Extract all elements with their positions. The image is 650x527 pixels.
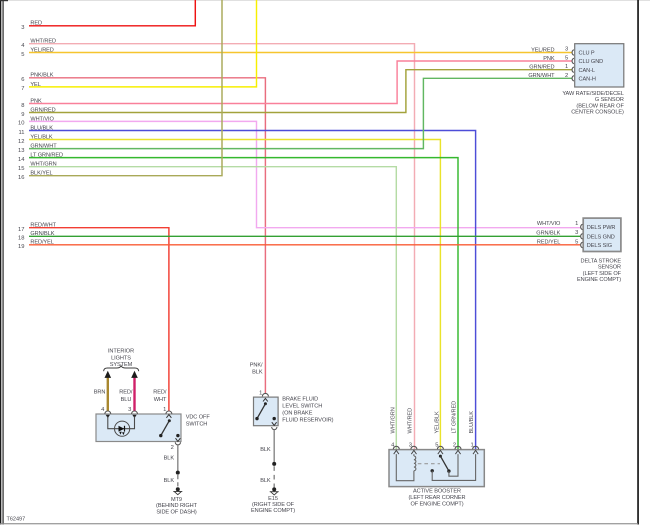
svg-text:15: 15 — [18, 166, 24, 172]
svg-text:WHT/GRN: WHT/GRN — [391, 407, 397, 433]
svg-text:2: 2 — [453, 443, 456, 449]
svg-text:RED/YEL: RED/YEL — [537, 239, 560, 245]
svg-text:2: 2 — [171, 445, 174, 451]
wire 17 RED/WHT — [18, 223, 169, 412]
svg-text:CENTER CONSOLE): CENTER CONSOLE) — [571, 110, 624, 116]
K1 coil L1 (between pins 4 and 3) — [396, 454, 416, 481]
ground MT9 — [156, 487, 198, 515]
U1 pin 1 (CAN-L) — [529, 64, 574, 72]
svg-text:YEL: YEL — [30, 82, 40, 88]
K1 mechanical link (dashed) — [418, 463, 440, 465]
svg-text:YAW RATE/SIDE/DECEL: YAW RATE/SIDE/DECEL — [562, 91, 623, 97]
svg-text:6: 6 — [21, 77, 24, 83]
svg-text:INTERIOR: INTERIOR — [108, 348, 134, 354]
wire 4 WHT/RED — [21, 39, 414, 450]
ground E15 — [251, 487, 295, 514]
svg-text:19: 19 — [18, 244, 24, 250]
wire RED/BLU (to interior lights) — [119, 371, 138, 412]
wire 18 GRN/BLK — [18, 231, 580, 241]
U2 pin 1 (DELS PWR) — [537, 221, 583, 230]
svg-text:WHT: WHT — [154, 397, 167, 403]
svg-text:LT GRN/RED: LT GRN/RED — [452, 401, 458, 434]
relay K1 ACTIVE BOOSTER — [389, 450, 484, 508]
svg-text:1: 1 — [259, 390, 262, 396]
svg-text:5: 5 — [565, 55, 568, 61]
wire BLK dashed (to MT9) — [164, 475, 178, 488]
connector U1 YAW RATE/SIDE/DECEL G SENSOR — [562, 44, 624, 116]
svg-text:PNK/BLK: PNK/BLK — [30, 73, 53, 79]
svg-text:BLK/YEL: BLK/YEL — [30, 171, 52, 177]
svg-text:14: 14 — [18, 157, 25, 163]
svg-text:FLUID RESERVOIR): FLUID RESERVOIR) — [282, 418, 333, 424]
wire BLK (VDC pin 2 to splice) — [164, 445, 178, 471]
svg-text:1: 1 — [163, 407, 166, 413]
svg-text:13: 13 — [18, 148, 24, 154]
svg-text:18: 18 — [18, 236, 24, 242]
K1 contact to pin 2 — [449, 454, 458, 476]
svg-text:RED/: RED/ — [153, 390, 167, 396]
svg-text:BLU: BLU — [121, 397, 132, 403]
svg-text:(LEFT SIDE OF: (LEFT SIDE OF — [583, 271, 622, 277]
U2 pin 3 (DELS GND) — [536, 230, 582, 239]
svg-text:GRN/RED: GRN/RED — [529, 65, 554, 71]
svg-text:CAN-L: CAN-L — [579, 68, 595, 74]
switch S2 BRAKE FLUID LEVEL SWITCH — [254, 397, 334, 426]
svg-text:BLK: BLK — [164, 478, 175, 484]
svg-text:8: 8 — [21, 103, 24, 109]
svg-text:GRN/BLK: GRN/BLK — [30, 231, 54, 237]
svg-text:10: 10 — [18, 121, 24, 127]
S1 pin 4 — [101, 407, 111, 418]
label PNK/BLK (brake switch wire) — [250, 362, 263, 375]
S1 pin 1 — [163, 407, 172, 418]
svg-text:RED: RED — [30, 21, 42, 27]
svg-text:GRN/WHT: GRN/WHT — [528, 73, 555, 79]
svg-text:DELS SIG: DELS SIG — [587, 243, 612, 249]
svg-text:YEL/BLK: YEL/BLK — [435, 411, 441, 433]
svg-text:LIGHTS: LIGHTS — [111, 355, 131, 361]
wire BLK (brake switch to splice) — [260, 430, 274, 463]
svg-text:BLU/BLK: BLU/BLK — [30, 125, 53, 131]
label RED/WHT (VDC pin 1 wire) — [153, 390, 167, 403]
junction splice (brake ground) — [272, 462, 276, 466]
S2 pin 2 (bottom) — [272, 422, 277, 429]
K1 pin 3 — [409, 443, 417, 455]
U1 pin 5 (CLU GND) — [543, 55, 574, 63]
svg-text:WHT/VIO: WHT/VIO — [30, 116, 54, 122]
S1 pin 2 — [171, 438, 181, 451]
svg-text:WHT/RED: WHT/RED — [408, 408, 414, 434]
svg-text:(BEHIND RIGHT: (BEHIND RIGHT — [156, 503, 198, 509]
svg-text:SENSOR: SENSOR — [598, 264, 621, 270]
svg-text:9: 9 — [21, 112, 24, 118]
svg-text:DELS GND: DELS GND — [587, 234, 615, 240]
svg-text:BLK: BLK — [164, 455, 175, 461]
svg-text:11: 11 — [18, 130, 24, 136]
svg-text:3: 3 — [21, 25, 24, 31]
wire 14 LT GRN/RED — [18, 153, 458, 450]
svg-text:WHT/GRN: WHT/GRN — [30, 162, 56, 168]
svg-text:WHT/VIO: WHT/VIO — [537, 221, 561, 227]
S2 switch blade — [255, 402, 276, 420]
svg-text:SWITCH: SWITCH — [186, 422, 208, 428]
svg-text:OF ENGINE COMPT): OF ENGINE COMPT) — [410, 502, 463, 508]
svg-text:2: 2 — [565, 73, 568, 79]
svg-text:CLU GND: CLU GND — [579, 59, 604, 65]
svg-text:BLK: BLK — [252, 369, 263, 375]
svg-text:12: 12 — [18, 139, 24, 145]
K1 pin 5 — [435, 443, 443, 455]
svg-text:BRN: BRN — [94, 390, 106, 396]
svg-text:3: 3 — [409, 443, 412, 449]
svg-text:PNK: PNK — [30, 98, 42, 104]
svg-text:BLK: BLK — [260, 478, 271, 484]
switch S1 VDC OFF SWITCH — [96, 414, 210, 442]
S2 pin 1 (top) — [259, 390, 268, 401]
S1 switch blade — [159, 419, 179, 437]
svg-text:PNK: PNK — [543, 56, 555, 62]
wire 8 PNK — [21, 61, 572, 109]
svg-text:5: 5 — [575, 239, 578, 245]
wire 16 BLK/YEL — [18, 0, 222, 181]
wire 5 YEL/RED — [21, 47, 572, 57]
wire BRN (to interior lights) — [94, 371, 111, 412]
LED D1 inside VDC switch — [108, 417, 135, 437]
svg-text:BRAKE FLUID: BRAKE FLUID — [282, 397, 318, 403]
svg-text:CLU P: CLU P — [579, 50, 595, 56]
svg-text:RED/: RED/ — [119, 390, 133, 396]
K1 pin 1 — [470, 443, 478, 455]
wire BLK dashed (to E15) — [260, 466, 274, 488]
svg-text:GRN/RED: GRN/RED — [30, 107, 55, 113]
wire 7 YEL — [21, 0, 256, 92]
svg-text:LEVEL SWITCH: LEVEL SWITCH — [282, 404, 322, 410]
K1 pin 2 — [453, 443, 461, 455]
svg-text:17: 17 — [18, 227, 24, 233]
svg-text:VDC OFF: VDC OFF — [186, 415, 211, 421]
svg-text:3: 3 — [575, 230, 578, 236]
svg-text:BLU/BLK: BLU/BLK — [469, 411, 475, 434]
svg-text:DELS PWR: DELS PWR — [587, 225, 616, 231]
svg-text:BLK: BLK — [260, 447, 271, 453]
wire 3 RED — [21, 0, 195, 31]
svg-text:5: 5 — [21, 52, 24, 58]
wire 6 PNK/BLK — [21, 73, 265, 394]
svg-text:ENGINE COMPT): ENGINE COMPT) — [251, 508, 295, 514]
svg-text:CAN-H: CAN-H — [579, 76, 596, 82]
svg-text:7: 7 — [21, 86, 24, 92]
svg-text:YEL/RED: YEL/RED — [531, 47, 554, 53]
svg-text:WHT/RED: WHT/RED — [30, 39, 56, 45]
junction splice (VDC ground) — [176, 471, 180, 475]
svg-text:SIDE OF DASH): SIDE OF DASH) — [156, 509, 197, 515]
svg-text:GRN/BLK: GRN/BLK — [536, 231, 560, 237]
node INTERIOR LIGHTS SYSTEM — [104, 348, 139, 371]
svg-text:T62497: T62497 — [7, 517, 26, 523]
svg-text:RED/YEL: RED/YEL — [30, 240, 53, 246]
svg-text:(LEFT REAR CORNER: (LEFT REAR CORNER — [409, 495, 466, 501]
wire 12 YEL/BLK — [18, 134, 440, 449]
svg-text:PNK/: PNK/ — [250, 362, 263, 368]
svg-text:YEL/RED: YEL/RED — [30, 47, 53, 53]
S1 pin 3 — [128, 407, 137, 418]
K1 switch blade (pin 5 common) — [439, 455, 451, 473]
wire 13 GRN/WHT — [18, 78, 572, 154]
wire 11 BLU/BLK — [18, 125, 475, 449]
connector U2 DELTA STROKE SENSOR — [577, 218, 622, 283]
svg-text:GRN/WHT: GRN/WHT — [30, 144, 57, 150]
svg-text:(ON BRAKE: (ON BRAKE — [282, 411, 312, 417]
svg-text:3: 3 — [565, 47, 568, 53]
svg-text:ENGINE COMPT): ENGINE COMPT) — [577, 277, 621, 283]
U1 pin 3 (CLU P) — [531, 47, 574, 56]
K1 contact to pin 1 — [431, 454, 476, 480]
wire 10 WHT/VIO — [18, 116, 580, 227]
svg-text:1: 1 — [470, 443, 473, 449]
wire 9 GRN/RED — [21, 70, 572, 118]
svg-text:LT GRN/RED: LT GRN/RED — [30, 153, 63, 159]
svg-text:RED/WHT: RED/WHT — [30, 223, 56, 229]
U2 pin 5 (DELS SIG) — [537, 239, 583, 247]
wire 19 RED/YEL — [18, 240, 580, 250]
svg-text:1: 1 — [565, 64, 568, 70]
svg-text:16: 16 — [18, 175, 24, 181]
svg-text:G SENSOR: G SENSOR — [595, 97, 624, 103]
svg-text:1: 1 — [575, 221, 578, 227]
svg-text:YEL/BLK: YEL/BLK — [30, 134, 52, 140]
svg-text:(BELOW REAR OF: (BELOW REAR OF — [576, 103, 624, 109]
svg-text:3: 3 — [128, 407, 131, 413]
svg-text:5: 5 — [435, 443, 438, 449]
svg-text:ACTIVE BOOSTER: ACTIVE BOOSTER — [413, 489, 461, 495]
U1 pin 2 (CAN-H) — [528, 73, 574, 81]
wire 15 WHT/GRN — [18, 162, 396, 450]
K1 pin 4 — [391, 443, 399, 455]
